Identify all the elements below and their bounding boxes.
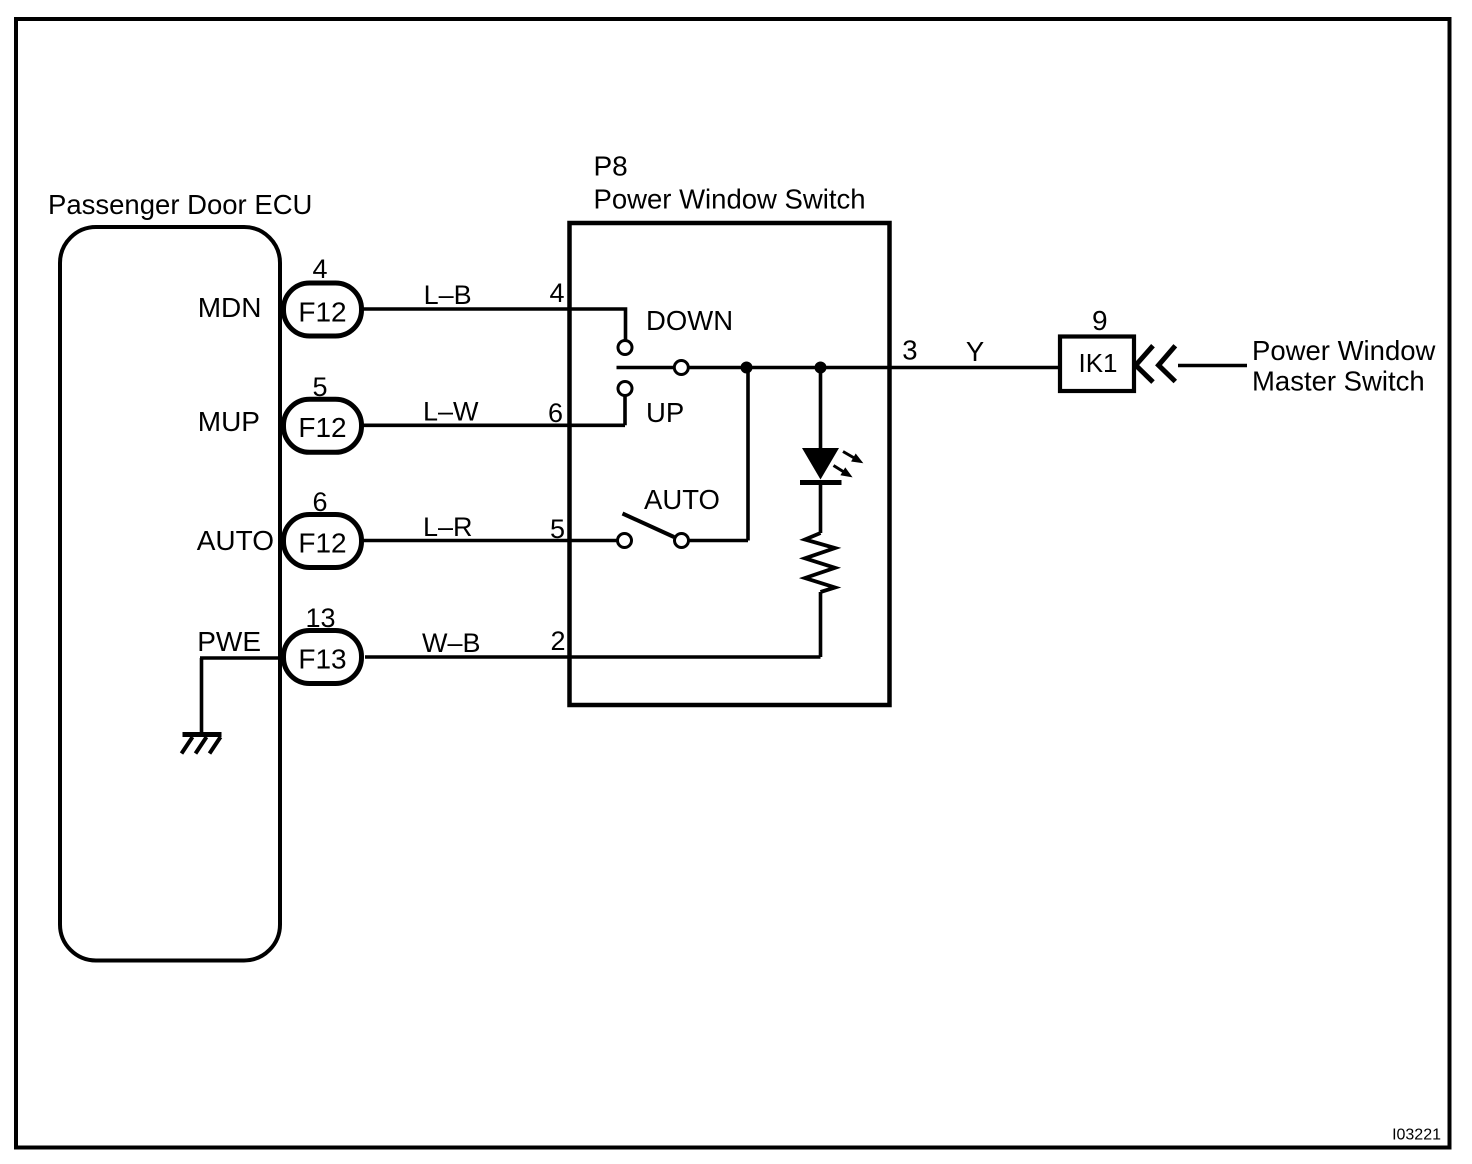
svg-text:4: 4 (312, 254, 327, 284)
svg-text:Passenger Door ECU: Passenger Door ECU (48, 189, 312, 220)
svg-text:MUP: MUP (198, 406, 260, 437)
svg-text:W–B: W–B (422, 628, 481, 658)
svg-text:9: 9 (1092, 305, 1108, 336)
svg-text:P8: P8 (594, 151, 628, 182)
svg-text:6: 6 (312, 487, 327, 517)
svg-text:5: 5 (550, 514, 565, 544)
svg-text:Y: Y (966, 336, 984, 367)
svg-text:Power Window: Power Window (1252, 335, 1436, 366)
svg-text:5: 5 (312, 372, 327, 402)
svg-text:Power Window Switch: Power Window Switch (594, 184, 866, 215)
svg-text:IK1: IK1 (1078, 348, 1117, 378)
svg-text:L–B: L–B (424, 280, 472, 310)
svg-text:L–R: L–R (423, 512, 473, 542)
svg-text:6: 6 (548, 398, 563, 428)
svg-text:L–W: L–W (423, 397, 479, 427)
svg-text:F12: F12 (298, 412, 346, 443)
svg-text:UP: UP (646, 397, 684, 428)
svg-text:MDN: MDN (198, 292, 262, 323)
svg-text:PWE: PWE (197, 626, 261, 657)
svg-text:I03221: I03221 (1392, 1127, 1441, 1144)
svg-text:AUTO: AUTO (197, 525, 274, 556)
svg-text:Master Switch: Master Switch (1252, 366, 1425, 397)
svg-text:4: 4 (549, 278, 564, 308)
svg-text:F12: F12 (298, 297, 346, 328)
svg-text:AUTO: AUTO (644, 484, 720, 515)
svg-text:F12: F12 (298, 528, 346, 559)
svg-text:DOWN: DOWN (646, 305, 733, 336)
svg-text:13: 13 (305, 603, 335, 633)
svg-text:2: 2 (550, 626, 565, 656)
svg-text:3: 3 (902, 335, 917, 366)
svg-text:F13: F13 (298, 644, 346, 675)
